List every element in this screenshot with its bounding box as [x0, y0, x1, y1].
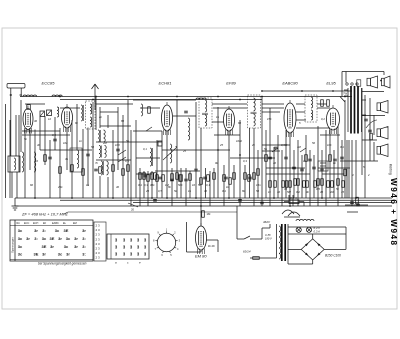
resistor — [305, 155, 308, 162]
svg-text:3c: 3c — [66, 236, 71, 241]
coil on bus L8 — [23, 95, 37, 97]
wire — [364, 95, 366, 198]
tube V2 ECH81 — [162, 102, 173, 135]
wire — [239, 120, 241, 206]
tube V1a ECC85 triode — [23, 106, 33, 134]
resistor R EM80 — [201, 206, 211, 226]
svg-text:EL95: EL95 — [326, 81, 336, 86]
svg-text:W946 + W948: W946 + W948 — [389, 178, 398, 247]
wire — [213, 168, 215, 198]
wire — [262, 150, 280, 152]
svg-text:Körting: Körting — [389, 164, 393, 175]
wire — [233, 165, 235, 198]
svg-text:30: 30 — [204, 189, 208, 193]
svg-text:EM: EM — [73, 222, 77, 225]
svg-text:2n: 2n — [98, 115, 103, 119]
coil L4 — [34, 152, 36, 172]
wire — [155, 170, 200, 172]
wire — [100, 111, 118, 113]
wire — [347, 211, 358, 213]
wire — [107, 115, 109, 128]
svg-text:10: 10 — [192, 183, 196, 187]
junction — [289, 205, 291, 207]
wire — [189, 171, 191, 198]
wire — [99, 176, 101, 198]
wire — [317, 103, 327, 105]
wire — [217, 107, 219, 198]
wire — [22, 134, 70, 136]
resistor — [321, 179, 324, 186]
wire speaker top — [342, 72, 384, 97]
wire — [29, 130, 31, 171]
capacitor — [356, 203, 360, 205]
capacitor on bus — [238, 199, 242, 201]
svg-text:2k: 2k — [251, 143, 256, 147]
coil L2 with core — [81, 105, 84, 121]
wire — [296, 111, 305, 113]
junction — [95, 96, 97, 98]
IF transformer AM 3 — [101, 161, 108, 175]
output transformer core — [351, 86, 358, 134]
svg-text:U 88: U 88 — [265, 233, 271, 237]
svg-text:100: 100 — [115, 143, 120, 147]
capacitor — [203, 176, 207, 178]
svg-text:EF: EF — [43, 222, 47, 225]
svg-text:ECH81: ECH81 — [159, 81, 172, 86]
speaker LS1 — [367, 76, 378, 88]
wire bus B — [60, 199, 392, 201]
svg-text:10n: 10n — [256, 183, 261, 187]
resistor — [265, 155, 268, 162]
wire — [296, 127, 330, 129]
svg-text:ECC: ECC — [24, 222, 29, 225]
pilot lamp La1 — [296, 227, 301, 232]
svg-text:EABC80: EABC80 — [282, 81, 298, 86]
svg-text:180 V: 180 V — [265, 237, 272, 241]
wire — [262, 107, 284, 109]
wire — [135, 120, 137, 198]
wire — [147, 171, 149, 206]
svg-text:10: 10 — [277, 190, 281, 194]
wire — [261, 96, 263, 206]
svg-text:5n: 5n — [126, 139, 130, 143]
resistor — [143, 173, 146, 180]
label lamp rating — [314, 226, 322, 234]
wire — [136, 173, 152, 175]
ratio detector transformer T3 — [305, 95, 317, 122]
junction — [59, 96, 61, 98]
svg-text:40: 40 — [273, 161, 277, 165]
wire — [320, 134, 340, 136]
wire — [317, 107, 330, 109]
capacitor — [48, 156, 52, 158]
svg-text:2 3: 2 3 — [96, 237, 101, 241]
svg-text:3r: 3r — [82, 228, 86, 233]
svg-text:462V: 462V — [263, 220, 271, 224]
resistor — [297, 179, 300, 186]
wire — [346, 140, 348, 198]
wire — [228, 131, 230, 198]
wire — [9, 120, 11, 198]
wire psu top — [288, 226, 346, 228]
wire — [289, 133, 291, 206]
svg-text:20: 20 — [145, 189, 150, 193]
svg-text:50: 50 — [256, 189, 260, 193]
resistor — [176, 173, 179, 180]
resistor — [327, 181, 330, 188]
wire bridge bottom — [288, 260, 313, 264]
svg-text:3r: 3r — [74, 244, 78, 249]
svg-text:3r: 3r — [26, 236, 30, 241]
speaker LS4 — [377, 127, 388, 140]
resistor — [171, 174, 174, 181]
resistor — [244, 173, 247, 180]
wire — [345, 204, 368, 206]
wire ground bus — [15, 197, 392, 199]
capacitor — [312, 166, 316, 168]
svg-text:3E: 3E — [34, 252, 39, 257]
svg-text:0,1: 0,1 — [206, 183, 210, 187]
wire — [373, 142, 375, 161]
junction — [71, 197, 73, 199]
resistor — [147, 175, 150, 182]
svg-text:7W: 7W — [343, 92, 348, 96]
svg-text:3r: 3r — [42, 252, 46, 257]
resistor — [337, 179, 340, 186]
resistor — [151, 173, 154, 180]
capacitor — [184, 178, 188, 180]
svg-text:100k: 100k — [236, 139, 243, 143]
wire — [301, 155, 303, 198]
wire — [95, 97, 97, 131]
resistor — [356, 197, 359, 204]
wire bridge left — [288, 248, 301, 250]
resistor — [213, 173, 216, 180]
svg-text:EABC: EABC — [52, 222, 59, 225]
wire — [321, 150, 323, 198]
wire — [318, 167, 350, 169]
resistor — [274, 181, 277, 188]
wire top bus — [20, 96, 352, 98]
wire — [337, 126, 339, 206]
capacitor — [268, 156, 272, 158]
wire — [15, 115, 17, 156]
junction — [301, 90, 303, 92]
svg-text:EF89: EF89 — [226, 81, 236, 86]
wire — [309, 150, 311, 206]
resistor — [127, 165, 130, 172]
svg-text:0,5: 0,5 — [52, 133, 56, 137]
switch S4 — [146, 127, 152, 131]
svg-text:B250 C100: B250 C100 — [325, 254, 341, 258]
svg-text:2M: 2M — [329, 190, 335, 194]
wire — [49, 140, 51, 198]
wire — [127, 100, 129, 198]
wire — [139, 168, 141, 206]
wire — [66, 128, 68, 170]
capacitor — [158, 176, 162, 178]
svg-text:15: 15 — [341, 190, 345, 194]
wire — [344, 100, 346, 198]
svg-text:3r: 3r — [74, 236, 78, 241]
coil L11 — [141, 104, 143, 116]
wire — [341, 140, 343, 198]
tube V4 EABC80 — [284, 100, 296, 137]
wire — [5, 104, 7, 198]
svg-text:0,8 A: 0,8 A — [290, 196, 297, 200]
wire heater bus — [15, 205, 392, 207]
capacitor — [86, 153, 90, 155]
resistor — [289, 181, 292, 188]
svg-text:ECC85: ECC85 — [42, 81, 56, 86]
resistor — [342, 181, 345, 188]
svg-text:3c: 3c — [18, 236, 23, 241]
padder capacitor — [158, 141, 162, 146]
junction — [176, 96, 178, 98]
wire — [277, 135, 279, 198]
wire — [285, 130, 287, 198]
svg-text:3r: 3r — [66, 252, 70, 257]
svg-text:0,2: 0,2 — [296, 190, 300, 194]
capacitor — [116, 148, 120, 150]
wire psu mid — [288, 233, 346, 235]
svg-text:3r: 3r — [34, 228, 38, 233]
svg-text:50: 50 — [91, 145, 95, 149]
capacitor — [194, 168, 198, 170]
capacitor — [340, 156, 344, 158]
wire — [244, 165, 246, 198]
svg-text:Spannungen: Spannungen — [10, 237, 14, 253]
IF transformer AM 1 — [98, 130, 105, 142]
svg-text:2: 2 — [367, 173, 370, 177]
wire — [269, 108, 271, 206]
junction — [217, 149, 219, 151]
svg-text:25: 25 — [219, 143, 224, 147]
svg-text:0,5M: 0,5M — [281, 143, 288, 147]
wire psu right — [345, 227, 347, 249]
svg-text:3r: 3r — [58, 236, 62, 241]
svg-text:0,5: 0,5 — [125, 159, 129, 163]
wire — [82, 129, 84, 198]
svg-text:0,5: 0,5 — [158, 189, 162, 193]
EM80 frame wires — [187, 222, 219, 252]
wire — [166, 131, 168, 198]
resistor — [269, 181, 272, 188]
trimmer capacitor C1 — [40, 111, 45, 117]
svg-text:2 3: 2 3 — [96, 242, 101, 246]
wire — [296, 119, 306, 121]
speaker LS2 — [382, 76, 391, 88]
svg-text:3:: 3: — [82, 252, 86, 257]
wire tone bottom — [250, 257, 277, 259]
wire — [162, 149, 230, 151]
wire — [18, 115, 20, 172]
wire — [281, 150, 283, 206]
junction — [195, 197, 197, 199]
svg-text:0,1: 0,1 — [143, 147, 147, 151]
wire stub — [128, 203, 138, 207]
wire — [361, 88, 363, 175]
wire IF arrow — [64, 212, 237, 214]
svg-text:3c: 3c — [18, 252, 23, 257]
wire — [369, 98, 371, 161]
junction — [228, 197, 230, 199]
junction — [355, 197, 357, 199]
output transformer windings — [344, 88, 366, 132]
svg-text:ZF = 468 kHz + 10,7 MHz: ZF = 468 kHz + 10,7 MHz — [21, 212, 68, 217]
wire — [351, 140, 353, 206]
wire bus C — [133, 202, 392, 204]
svg-text:2 3: 2 3 — [96, 228, 101, 232]
svg-text:5M: 5M — [287, 190, 292, 194]
wire — [212, 121, 224, 123]
junction — [200, 205, 202, 207]
voltage table — [10, 220, 93, 261]
label table2 caption — [115, 261, 141, 265]
svg-text:63/14: 63/14 — [243, 250, 251, 254]
wire — [24, 130, 26, 199]
svg-text:1n: 1n — [188, 189, 192, 193]
svg-text:10k: 10k — [63, 141, 68, 145]
resistor — [282, 181, 285, 188]
oscillator coil L12 — [150, 148, 152, 166]
resistor — [329, 155, 332, 162]
capacitor on bus — [260, 201, 264, 203]
svg-text:25: 25 — [182, 149, 187, 153]
wire — [214, 134, 240, 136]
svg-text:3c: 3c — [42, 236, 47, 241]
resistor — [82, 169, 85, 176]
wire — [249, 128, 251, 198]
svg-text:2 3: 2 3 — [96, 224, 101, 228]
switch S3 — [300, 148, 306, 152]
svg-text:0,3: 0,3 — [243, 159, 247, 163]
wire — [71, 120, 73, 198]
junction — [332, 90, 334, 92]
wire — [92, 102, 94, 198]
wire psu left — [287, 224, 289, 264]
capacitor — [248, 176, 252, 178]
speaker LS5 — [377, 144, 388, 157]
resistor R tone — [253, 257, 260, 260]
tube socket pinout — [153, 228, 181, 257]
resistor — [71, 165, 74, 172]
capacitor — [94, 168, 98, 170]
wire — [262, 111, 280, 113]
wire — [257, 150, 259, 198]
wire — [340, 97, 345, 103]
wire — [59, 128, 61, 198]
wire — [96, 103, 133, 105]
svg-text:3:: 3: — [34, 236, 38, 241]
coil L1 — [57, 107, 59, 117]
wire — [99, 107, 101, 128]
wire — [362, 115, 385, 117]
wire — [44, 116, 46, 165]
wire — [76, 104, 78, 150]
speaker LS3 — [377, 101, 388, 114]
label U88 — [265, 233, 272, 241]
svg-text:3E: 3E — [42, 244, 47, 249]
wire — [262, 157, 275, 159]
wire — [209, 171, 211, 206]
resistor R osc — [148, 107, 151, 114]
capacitor — [368, 129, 372, 131]
svg-text:EM 80: EM 80 — [195, 254, 207, 259]
resistor — [253, 173, 256, 180]
wire — [107, 177, 109, 198]
wire tone step — [250, 224, 270, 239]
junction — [92, 99, 94, 101]
svg-text:0,3: 0,3 — [144, 183, 148, 187]
svg-text:10k: 10k — [327, 143, 332, 147]
coil on bus L9 — [52, 95, 62, 97]
resistor — [314, 181, 317, 188]
wire — [40, 149, 92, 151]
wire — [305, 135, 307, 198]
svg-text:2 3: 2 3 — [96, 251, 101, 255]
svg-text:3r: 3r — [50, 244, 54, 249]
svg-text:3E: 3E — [50, 236, 55, 241]
wire HT bus — [262, 90, 352, 92]
wire — [16, 172, 18, 198]
wire — [262, 103, 284, 105]
svg-text:3c: 3c — [18, 244, 23, 249]
voltage selector — [282, 210, 300, 217]
junction — [261, 90, 263, 92]
wire — [100, 125, 131, 127]
wire — [87, 128, 89, 187]
fuse speaker line — [357, 80, 361, 86]
IF transformer T2 — [248, 95, 261, 128]
wire — [54, 117, 56, 150]
wire — [313, 155, 315, 198]
resistor — [321, 100, 324, 107]
wire — [230, 157, 262, 159]
wire — [296, 103, 305, 105]
antenna FM dipole — [92, 84, 99, 110]
ground — [12, 198, 19, 210]
wire fuse leads — [284, 202, 304, 206]
wire AVC bus — [60, 99, 262, 101]
resistor — [44, 155, 47, 162]
capacitor — [170, 178, 174, 180]
resistor — [248, 175, 251, 182]
tube V3 EF89 — [224, 106, 235, 135]
svg-text:40: 40 — [37, 143, 41, 147]
wire — [96, 159, 131, 161]
junction — [151, 197, 153, 199]
resistor — [180, 175, 183, 182]
antenna AM — [7, 84, 25, 157]
wire — [185, 168, 187, 206]
power transformer primary — [279, 226, 281, 259]
svg-text:3n: 3n — [65, 157, 69, 161]
wire — [348, 140, 350, 198]
resistor — [162, 175, 165, 182]
electrolytic capacitor — [318, 161, 328, 171]
wire — [112, 130, 114, 198]
resistor — [327, 100, 330, 107]
voltage table notes column — [94, 222, 106, 261]
wire tone in — [237, 206, 244, 239]
tube V1b ECC85 triode — [62, 104, 73, 132]
svg-text:1M: 1M — [297, 145, 302, 149]
switch S2 — [272, 148, 278, 152]
svg-text:3c: 3c — [18, 228, 23, 233]
svg-text:2 3: 2 3 — [96, 233, 101, 237]
heater winding — [296, 219, 314, 221]
